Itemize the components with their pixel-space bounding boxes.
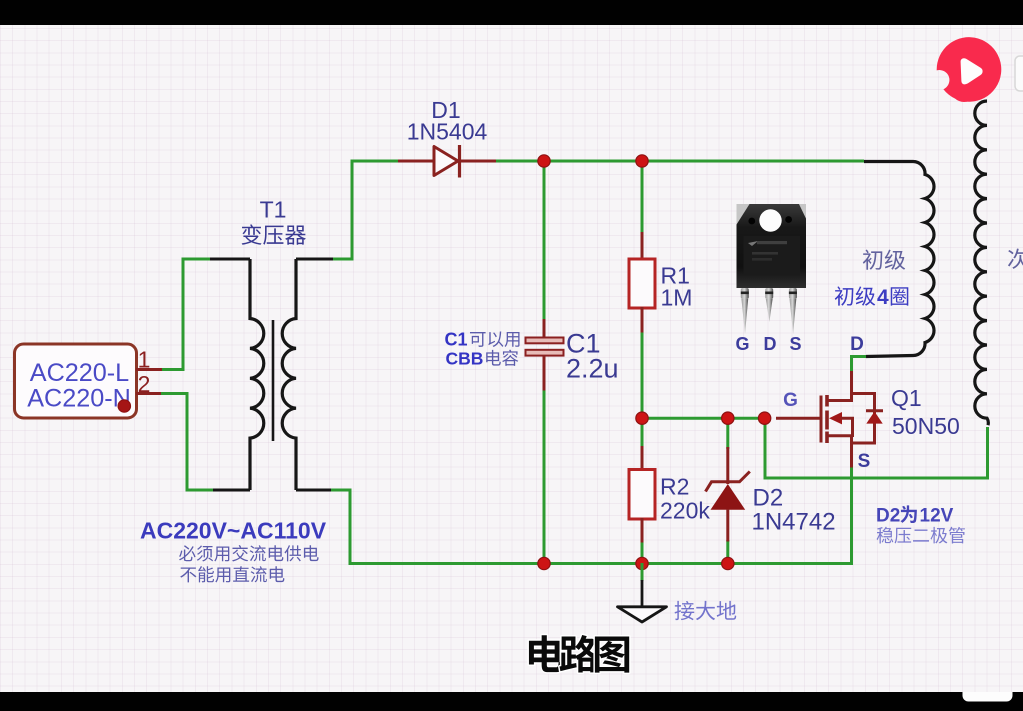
wire: R1 upper stub (dark red) bbox=[641, 232, 644, 260]
pin 1 label bbox=[138, 347, 151, 373]
wire: D2 top lead (green) bbox=[726, 418, 729, 449]
svg-text:220k: 220k bbox=[660, 498, 710, 524]
wire: C1 lower stub (dark red) bbox=[543, 355, 546, 391]
svg-text:G: G bbox=[735, 334, 749, 354]
note 不能用直流电 bbox=[180, 566, 284, 582]
resistor R1 bbox=[629, 259, 655, 308]
label R1 bbox=[661, 263, 690, 289]
subtitle tab bottom right bbox=[963, 692, 1013, 702]
label AC220-N bbox=[27, 385, 131, 413]
label 2.2u bbox=[566, 354, 619, 384]
svg-text:D2: D2 bbox=[876, 506, 900, 527]
label 次 (secondary, clipped) bbox=[1008, 248, 1023, 268]
wire: D1 anode lead (dark red) bbox=[398, 160, 434, 163]
wire: gate lead (dark red) bbox=[776, 417, 821, 420]
wire: transformer top-left lead (black) bbox=[210, 258, 250, 261]
junction: gate rail at R2 bbox=[636, 412, 648, 424]
capacitor C1 plates bbox=[526, 338, 564, 356]
transistor photo TO-3P package bbox=[737, 204, 807, 334]
wire: C1 bottom lead to ground rail (green) bbox=[543, 389, 546, 565]
svg-text:CBB: CBB bbox=[446, 349, 484, 369]
wire: D2 lower stub (dark red) bbox=[726, 509, 729, 542]
svg-text:Q1: Q1 bbox=[891, 385, 922, 411]
svg-text:D2: D2 bbox=[753, 485, 784, 512]
svg-text:50N50: 50N50 bbox=[892, 413, 960, 439]
wire: R2 bottom lead (green) bbox=[641, 541, 644, 565]
junction: ground rail at R2 bbox=[636, 557, 648, 569]
svg-text:C1: C1 bbox=[445, 330, 468, 350]
wire: D2 upper stub (dark red) bbox=[726, 447, 729, 484]
svg-text:G: G bbox=[783, 390, 798, 411]
svg-text:AC220V~AC110V: AC220V~AC110V bbox=[140, 518, 327, 544]
wire: AC pin1 to transformer top-left (green) bbox=[160, 259, 212, 370]
wire: R1 lower stub (dark red) bbox=[641, 307, 644, 333]
label T1 bbox=[260, 197, 287, 223]
inductor: primary winding of HV transformer bbox=[864, 161, 934, 356]
junction: gate rail at D2 bbox=[722, 412, 734, 424]
label G (gate) bbox=[783, 390, 798, 411]
wire: C1 upper stub (dark red) bbox=[543, 319, 546, 338]
inductor: feedback/secondary winding at right edge bbox=[975, 101, 989, 425]
label C1 bbox=[566, 329, 601, 359]
label 220k bbox=[660, 498, 710, 524]
svg-text:AC220-N: AC220-N bbox=[27, 385, 131, 413]
wire: R2 top lead (green) bbox=[641, 418, 644, 448]
wire: bottom ground rail (green) bbox=[543, 466, 852, 564]
label D2 bbox=[753, 485, 784, 512]
wire: R1 top lead (green) bbox=[641, 160, 644, 234]
label D (drain node) bbox=[850, 334, 864, 355]
label Q1 bbox=[891, 385, 922, 411]
wire: D2 bottom lead (green) bbox=[726, 540, 729, 565]
svg-text:D: D bbox=[764, 334, 777, 354]
node: red dot on AC220-N bbox=[118, 400, 130, 412]
label 1N5404 bbox=[407, 119, 488, 145]
svg-text:1N4742: 1N4742 bbox=[752, 509, 836, 536]
note C1可以用 bbox=[445, 330, 520, 350]
transformer T1 core bbox=[272, 320, 275, 441]
wire: transformer top-right lead (black) bbox=[296, 258, 333, 261]
wire: R2 lower stub (dark red) bbox=[641, 518, 644, 543]
junction: ground rail at C1 bbox=[538, 557, 550, 569]
label AC220-L bbox=[30, 359, 129, 387]
ground symbol bbox=[618, 563, 667, 622]
junction: ground rail at D2 bbox=[722, 557, 734, 569]
label 1N4742 bbox=[752, 509, 836, 536]
wire: D1 cathode lead (dark red) bbox=[459, 160, 496, 163]
note 必须用交流电供电 bbox=[179, 545, 319, 561]
wire: Q1 drain to primary coil bottom (green) bbox=[852, 357, 868, 374]
note 稳压二极管 bbox=[877, 527, 965, 544]
label G (photo pin) bbox=[735, 334, 749, 354]
svg-text:D: D bbox=[850, 334, 864, 355]
resistor R2 bbox=[629, 470, 655, 520]
wire: transformer bottom-right lead (black) bbox=[296, 489, 333, 492]
UI element right edge bbox=[1015, 56, 1023, 91]
svg-text:S: S bbox=[789, 334, 801, 354]
label 接大地 bbox=[675, 601, 737, 620]
svg-text:1N5404: 1N5404 bbox=[407, 119, 488, 145]
pin 2 label bbox=[138, 371, 151, 397]
label 50N50 bbox=[892, 413, 960, 439]
wire: pin1 stub (dark red) bbox=[136, 368, 162, 371]
note D2为12V bbox=[876, 505, 954, 526]
label 变压器 bbox=[242, 224, 306, 244]
connector J1 AC220 input box bbox=[15, 344, 137, 418]
wire: AC pin2 to transformer bottom-left (green) bbox=[159, 394, 215, 491]
label S (photo pin) bbox=[789, 334, 801, 354]
wire: R2 upper stub (dark red) bbox=[641, 446, 644, 471]
wire: gate node down and across to feedback winding (green) bbox=[765, 418, 988, 478]
junction: gate node bbox=[758, 412, 770, 424]
junction: top rail at R1 bbox=[636, 155, 648, 167]
label 1M bbox=[661, 285, 693, 311]
svg-text:R2: R2 bbox=[660, 474, 689, 500]
junction: top rail at C1 bbox=[538, 155, 550, 167]
transistor Q1 MOSFET symbol bbox=[821, 371, 883, 468]
label 初级 bbox=[863, 249, 905, 269]
label S (source node) bbox=[858, 451, 871, 472]
wire: C1 top lead (green) bbox=[543, 160, 546, 321]
label D (photo pin) bbox=[764, 334, 777, 354]
wire: R1 bottom lead to gate rail (green) bbox=[641, 331, 644, 420]
zener diode D2 bbox=[706, 472, 750, 510]
svg-text:T1: T1 bbox=[260, 197, 287, 223]
label R2 bbox=[660, 474, 689, 500]
svg-text:S: S bbox=[858, 451, 871, 472]
watermark logo (xigua video) bbox=[937, 37, 1002, 102]
wire: transformer top-right to diode D1 (green) bbox=[331, 161, 400, 259]
wire: top DC rail from D1 to primary coil (green) bbox=[495, 160, 864, 163]
note CBB电容 bbox=[446, 349, 519, 369]
wire: transformer bottom-left lead (black) bbox=[213, 489, 250, 492]
label D1 bbox=[431, 97, 460, 123]
wire: gate rail (green) bbox=[642, 417, 766, 420]
wire: pin2 stub (dark red) bbox=[136, 392, 161, 395]
label 初级4圈 bbox=[835, 286, 909, 309]
wire: transformer bottom-right to ground rail (green) bbox=[331, 490, 545, 564]
transformer T1 left winding bbox=[250, 259, 264, 490]
title 电路图 bbox=[529, 635, 629, 673]
note AC220V~AC110V bbox=[140, 518, 327, 544]
svg-text:AC220-L: AC220-L bbox=[30, 359, 129, 387]
svg-text:2.2u: 2.2u bbox=[566, 354, 619, 384]
svg-text:4: 4 bbox=[877, 286, 889, 309]
svg-text:12V: 12V bbox=[920, 506, 954, 527]
diode D1 bbox=[434, 145, 460, 178]
transformer T1 right winding bbox=[282, 259, 296, 490]
svg-text:1M: 1M bbox=[661, 285, 693, 311]
